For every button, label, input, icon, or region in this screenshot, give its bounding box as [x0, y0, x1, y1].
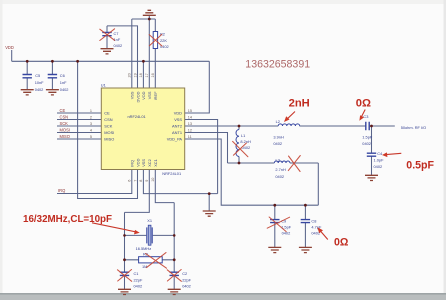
red X over R2 — [149, 34, 162, 46]
pin 19 DVDD label — [133, 73, 140, 102]
wire pin8 VSS to ground — [143, 170, 217, 194]
wire pin20 VSS top — [131, 19, 133, 88]
wire C2 stem — [173, 260, 175, 289]
svg-text:VSS: VSS — [174, 117, 182, 122]
svg-text:C4: C4 — [377, 151, 383, 156]
node VSS-ground stem — [208, 192, 211, 195]
wire XC2 — [125, 170, 150, 213]
svg-text:2: 2 — [90, 115, 92, 119]
svg-text:C7: C7 — [114, 31, 119, 36]
wire VDD rail — [12, 60, 210, 62]
node C3-C4 — [370, 125, 373, 128]
svg-text:16: 16 — [151, 73, 155, 77]
node crystal left — [123, 234, 126, 237]
pin 20 VSS label — [128, 73, 135, 99]
svg-text:CSN: CSN — [60, 114, 69, 119]
svg-text:L2: L2 — [276, 119, 280, 124]
svg-text:DVDD: DVDD — [135, 91, 140, 102]
pin 7 VDD label — [133, 158, 140, 181]
svg-text:0402: 0402 — [114, 43, 123, 48]
inductor L3 — [274, 157, 290, 179]
pin 16 IREF label — [151, 73, 158, 100]
svg-text:C8: C8 — [311, 219, 316, 224]
svg-text:VSS: VSS — [130, 91, 135, 99]
ground (C8) — [299, 247, 312, 252]
svg-text:19: 19 — [133, 73, 137, 77]
pin 5 MISO label — [60, 134, 115, 142]
wire CSN — [57, 119, 101, 121]
svg-text:17: 17 — [145, 73, 149, 77]
svg-text:11: 11 — [188, 135, 192, 139]
wire C9 stem — [274, 205, 276, 247]
node rail-C9 — [273, 204, 276, 207]
svg-text:5: 5 — [90, 135, 92, 139]
node rail-pin18 — [142, 60, 145, 63]
svg-text:0402: 0402 — [275, 174, 284, 179]
svg-text:XC2: XC2 — [147, 159, 152, 167]
arrow 0.5pF to C4 — [382, 152, 401, 157]
ground (C7) — [101, 49, 114, 54]
pin 13 ANT2 label — [172, 122, 192, 129]
wire VDD left drop to pin7 — [78, 61, 138, 198]
svg-text:CSN: CSN — [104, 117, 112, 122]
wire rail drop to pin15 — [185, 61, 210, 113]
wire VDD_PA rail — [185, 139, 319, 205]
svg-text:L1: L1 — [241, 133, 245, 138]
inductor L1 — [236, 126, 251, 163]
wire right riser — [317, 163, 319, 205]
svg-text:VSS: VSS — [147, 91, 152, 99]
pin 18 VDD label — [139, 73, 146, 99]
inductor L2 — [273, 119, 299, 146]
wire pin17 VSS — [148, 19, 150, 88]
svg-text:9: 9 — [145, 180, 149, 182]
capacitor C6 — [48, 61, 69, 92]
svg-text:22pF: 22pF — [182, 278, 191, 283]
svg-text:1nF: 1nF — [60, 80, 67, 85]
svg-text:0402: 0402 — [160, 44, 169, 49]
svg-text:6: 6 — [128, 180, 132, 182]
svg-text:8: 8 — [139, 180, 143, 182]
arrow 2nH to L2 — [284, 112, 295, 123]
svg-text:0402: 0402 — [273, 141, 282, 146]
capacitor C7 — [102, 31, 122, 48]
svg-text:22pF: 22pF — [134, 278, 143, 283]
svg-text:0402: 0402 — [362, 141, 371, 146]
svg-text:MISO: MISO — [104, 137, 114, 142]
node R3 right — [173, 258, 176, 261]
arrow CL to X1 — [92, 223, 140, 235]
svg-text:0Ω: 0Ω — [334, 237, 349, 249]
node rail-VDD drop — [76, 60, 79, 63]
svg-text:CE: CE — [60, 108, 66, 113]
wire XC1 — [155, 170, 174, 203]
node rail-C5 — [26, 60, 29, 63]
wire MISO — [57, 138, 101, 140]
svg-text:IRQ: IRQ — [130, 160, 135, 167]
svg-text:7: 7 — [133, 180, 137, 182]
svg-text:1.5pF: 1.5pF — [362, 134, 373, 139]
ground (C1) — [118, 289, 131, 294]
red X over C2 — [167, 270, 181, 282]
ground (C4) — [365, 175, 378, 180]
svg-text:3.9nH: 3.9nH — [273, 134, 284, 139]
svg-text:U1: U1 — [101, 82, 106, 87]
svg-text:13632658391: 13632658391 — [245, 58, 310, 70]
red X over L3 — [288, 156, 300, 172]
svg-text:0402: 0402 — [374, 164, 383, 169]
svg-text:ANT2: ANT2 — [172, 124, 182, 129]
wire crystal left vertical — [124, 212, 126, 259]
svg-text:SCK: SCK — [104, 124, 112, 129]
wire CE — [57, 112, 101, 114]
node L1-lower branch — [238, 162, 241, 165]
arrow 0 ohm to C3 — [359, 110, 365, 121]
svg-text:2nH: 2nH — [289, 97, 310, 109]
capacitor C2 — [170, 271, 192, 288]
wire C7 stem — [106, 26, 108, 48]
svg-text:50ohm. RF I/O: 50ohm. RF I/O — [401, 125, 427, 130]
power symbol VDD (top-left) — [5, 45, 14, 62]
svg-text:10nF: 10nF — [35, 80, 44, 85]
capacitor C9 — [270, 219, 292, 236]
svg-text:12: 12 — [188, 128, 192, 132]
svg-text:4: 4 — [90, 128, 92, 132]
svg-text:2.7nH: 2.7nH — [275, 167, 286, 172]
pin 12 ANT1 label — [172, 128, 192, 135]
red X over C1 — [118, 270, 132, 282]
svg-text:0402: 0402 — [60, 87, 69, 92]
svg-text:3: 3 — [90, 122, 92, 126]
svg-text:X1: X1 — [147, 218, 152, 223]
svg-text:SCK: SCK — [60, 121, 69, 126]
node ANT2-L1 — [238, 125, 241, 128]
pin 1 CE label — [60, 108, 111, 116]
wire R3 row — [125, 259, 175, 261]
svg-text:C3: C3 — [363, 114, 368, 119]
svg-text:VSS: VSS — [141, 159, 146, 167]
node crystal right — [173, 234, 176, 237]
svg-text:NRF24L01: NRF24L01 — [162, 171, 181, 176]
svg-text:ANT1: ANT1 — [172, 130, 182, 135]
svg-text:4.7pF: 4.7pF — [311, 225, 322, 230]
op-amp U1 nRF24L01 body — [101, 82, 185, 176]
pin 14 VSS label — [174, 115, 192, 122]
svg-text:VDD: VDD — [135, 158, 140, 166]
svg-text:0402: 0402 — [134, 284, 143, 289]
svg-text:14: 14 — [188, 115, 192, 119]
svg-text:1.0pF: 1.0pF — [374, 158, 385, 163]
wire ANT2 / RF line — [185, 125, 395, 127]
ground (top, inverted) — [143, 10, 156, 15]
svg-text:15: 15 — [188, 109, 192, 113]
pin 11 VDD_PA label — [167, 135, 192, 142]
wire IREF through R2 — [154, 19, 156, 88]
wire SCK — [57, 125, 101, 127]
svg-text:CE: CE — [104, 111, 110, 116]
red X over C7 — [100, 29, 115, 41]
svg-text:0Ω: 0Ω — [356, 97, 371, 109]
pin 9 XC2 label — [145, 159, 152, 182]
svg-text:18: 18 — [139, 73, 143, 77]
ground (C9) — [268, 247, 281, 252]
svg-text:1M: 1M — [142, 264, 147, 269]
pin 17 VSS label — [145, 73, 152, 99]
wire VDD stem — [11, 50, 13, 61]
pin 10 XC1 label — [151, 159, 158, 182]
svg-text:C1: C1 — [134, 271, 139, 276]
svg-text:0402: 0402 — [35, 87, 44, 92]
svg-text:1: 1 — [90, 109, 92, 113]
wire ANT1 drop — [185, 133, 228, 164]
node top ground — [148, 18, 151, 21]
wire lower RF branch — [228, 162, 319, 164]
capacitor C1 — [120, 271, 143, 288]
pin 8 VSS label — [139, 159, 146, 182]
wire C1 stem — [124, 260, 126, 289]
wire pin14 VSS — [185, 120, 218, 194]
resistor R3 — [139, 252, 163, 270]
ground (VSS near chip) — [203, 211, 216, 216]
node rail-C8 — [304, 204, 307, 207]
arrow 0 ohm to C8 — [317, 227, 327, 239]
svg-text:13: 13 — [188, 122, 192, 126]
resistor R2 — [153, 31, 168, 49]
bottom gray band — [0, 293, 446, 300]
svg-text:16.5MHz: 16.5MHz — [136, 246, 152, 251]
ground (C2) — [168, 289, 181, 294]
ground (C5) — [21, 90, 34, 95]
pin 2 CSN label — [60, 114, 113, 122]
svg-text:VDD: VDD — [5, 45, 14, 50]
svg-text:MISO: MISO — [60, 134, 70, 139]
svg-text:20: 20 — [128, 73, 132, 77]
svg-text:IRQ: IRQ — [58, 188, 65, 193]
wire C4 stem — [371, 126, 373, 175]
wire crystal right vertical — [173, 203, 175, 260]
wire C8 stem — [304, 205, 306, 247]
wire crystal horizontal — [125, 234, 175, 236]
svg-text:VDD: VDD — [141, 91, 146, 99]
capacitor C4 — [367, 151, 384, 169]
svg-text:C2: C2 — [182, 271, 187, 276]
capacitor C8 — [301, 219, 322, 236]
svg-text:nRF24L01: nRF24L01 — [128, 114, 146, 119]
capacitor C3 — [362, 114, 373, 146]
svg-text:0402: 0402 — [182, 284, 191, 289]
svg-text:IREF: IREF — [153, 91, 158, 100]
svg-text:10: 10 — [151, 178, 155, 182]
pin 3 SCK label — [60, 121, 113, 129]
wire IRQ — [57, 170, 132, 194]
crystal X1 — [136, 218, 153, 251]
wire top ground stem — [148, 15, 150, 19]
wire MOSI — [57, 132, 101, 134]
svg-text:XC1: XC1 — [153, 159, 158, 167]
red X over R3 — [146, 253, 167, 269]
capacitor C5 — [23, 61, 45, 92]
wire DVDD to C7 — [107, 26, 138, 88]
wire pin18 VDD — [142, 61, 144, 88]
svg-text:22K: 22K — [160, 38, 167, 43]
svg-text:MOSI: MOSI — [60, 127, 70, 132]
svg-text:L3: L3 — [276, 157, 280, 162]
pin 15 VDD label — [174, 109, 192, 116]
red X over L1 — [233, 141, 248, 156]
node R3 left — [123, 258, 126, 261]
svg-text:C6: C6 — [60, 73, 65, 78]
wire ground stem — [208, 194, 210, 211]
svg-text:0402: 0402 — [242, 145, 251, 150]
ground (C6) — [46, 90, 59, 95]
pin 4 MOSI label — [60, 127, 115, 135]
svg-text:0.5pF: 0.5pF — [406, 159, 434, 171]
svg-text:VDD: VDD — [174, 111, 182, 116]
svg-text:VDD_PA: VDD_PA — [167, 137, 183, 142]
node rail-C6 — [51, 60, 54, 63]
wire top ground net — [132, 18, 156, 20]
pin 6 IRQ label — [128, 160, 135, 182]
svg-text:C5: C5 — [35, 73, 40, 78]
svg-text:MOSI: MOSI — [104, 130, 114, 135]
svg-text:16/32MHz,CL=10pF: 16/32MHz,CL=10pF — [23, 214, 112, 225]
red X over C9 — [267, 217, 289, 232]
